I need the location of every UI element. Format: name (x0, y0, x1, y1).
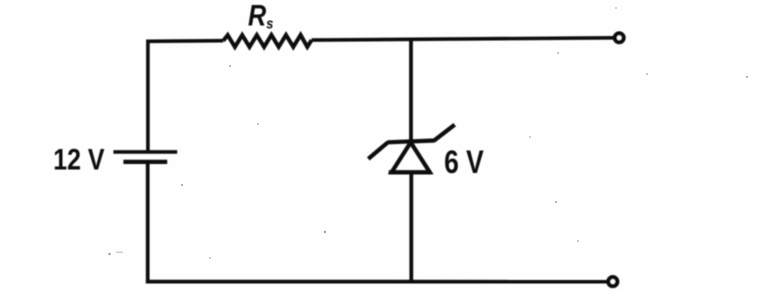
wire: bottom horizontal (146, 280, 607, 284)
svg-text:6 V: 6 V (444, 144, 484, 180)
zener diode: left bent tail (368, 142, 388, 159)
zener diode: cathode bar (387, 141, 434, 143)
scan noise specks (108, 7, 748, 259)
battery B1: short plate (-) (123, 160, 167, 164)
zener diode: right bent tail (434, 125, 455, 141)
wire: left vertical lower (battery to bottom wire) (146, 162, 150, 283)
svg-text:s: s (266, 16, 273, 32)
svg-text:12 V: 12 V (53, 142, 104, 175)
zener diode: triangle (anode, pointing up) (392, 142, 430, 172)
terminal: top-right open circle (615, 33, 624, 42)
wire: zener anode down to bottom wire (409, 172, 413, 281)
battery B1: long plate (+) (113, 150, 177, 154)
terminal: bottom-right open circle (608, 277, 617, 286)
wire: left vertical + top-left horizontal to resistor (148, 41, 223, 151)
wire: resistor to top-right terminal (312, 38, 614, 40)
svg-text:R: R (248, 0, 266, 32)
wire: top wire down to zener (vertical branch upper part) (409, 39, 413, 142)
resistor R_s zigzag (223, 35, 311, 47)
zener diode: triangle base overhang (389, 170, 432, 174)
